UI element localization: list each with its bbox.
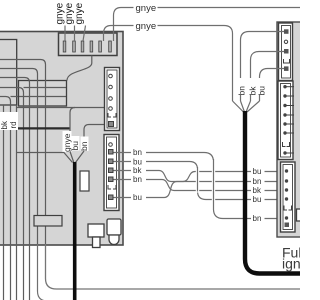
wire bn to K3 pin2 (265, 181, 285, 183)
svg-text:bu: bu (257, 86, 267, 96)
wire bottom corner partial (38, 244, 61, 300)
wire left edge h3 (0, 78, 30, 300)
wire left edge h4 (0, 88, 24, 300)
wire bk from K1 pin3 (251, 52, 285, 102)
gnye wire 2 (104, 21, 233, 101)
wire bn to K3 pin5 (265, 218, 285, 220)
wire bus into relay 1 (24, 87, 68, 89)
gnye wire 1 top (114, 3, 301, 41)
wire bu to K3 pin4 (265, 199, 285, 201)
svg-text:bn: bn (253, 214, 262, 223)
svg-text:bk: bk (0, 120, 9, 129)
bottom component 2 (sensor) (107, 219, 121, 245)
harness wire bu197 (146, 182, 251, 198)
wire stub P2 pin3 bk (114, 170, 132, 172)
component box left edge (0, 40, 17, 106)
Full sequence ignition text (282, 245, 319, 272)
wire bus into relay 2 (11, 96, 68, 98)
harness wire bn152 (146, 153, 251, 219)
wire conn1 pin to cable (bn) (84, 125, 105, 152)
svg-text:gnye: gnye (74, 2, 85, 24)
PCB (main control board) (0, 32, 123, 246)
PCB connector P2 (104, 135, 119, 211)
cable fan lines (64, 151, 85, 163)
svg-text:gnye: gnye (136, 21, 157, 32)
wire stub P2 pin1 bn (114, 152, 132, 154)
wire bottom corner to right (46, 244, 301, 289)
relay outline (19, 81, 67, 107)
svg-text:bu: bu (133, 193, 142, 202)
wire bu from K1 pin4 (260, 69, 285, 102)
wire from component box down (3, 105, 5, 300)
small partial box right edge (297, 209, 305, 221)
middle labels right (253, 167, 262, 223)
svg-text:ignitio: ignitio (282, 256, 300, 272)
top connector J1 (59, 33, 118, 56)
left thick cable (73, 162, 77, 300)
harness wire bk170 (146, 171, 251, 182)
label rd (9, 112, 18, 130)
svg-text:bk: bk (253, 186, 262, 195)
unit connector K3 (281, 162, 296, 232)
svg-text:bn: bn (237, 86, 247, 96)
bottom component 1 (plug) (88, 224, 104, 248)
small white component beside cable (80, 171, 89, 191)
harness crossing verticals redrawn with halo (198, 159, 214, 210)
svg-text:bk: bk (133, 166, 142, 175)
wire stub P2 pin2 bu (114, 161, 132, 163)
svg-text:bn: bn (133, 148, 142, 157)
wire from component box down 2 (16, 105, 18, 300)
wire gnye to cable fan (17, 152, 64, 154)
gnye vertical label 3 (74, 2, 86, 41)
wire bn from K1 pin1 (241, 32, 285, 102)
svg-text:bn: bn (253, 177, 262, 186)
label bk (0, 112, 9, 130)
unit connector K1 (279, 23, 293, 81)
wire conn1 pin to cable (bu) (17, 107, 105, 109)
thick wire y128 (17, 127, 71, 129)
PCB connector P1 (105, 68, 120, 131)
svg-text:bu: bu (253, 195, 262, 204)
wire left edge h2 (0, 69, 38, 245)
wire stub P2 pin4 bn (114, 179, 132, 181)
unit connector K2 (278, 81, 294, 160)
cable fan labels (62, 131, 72, 152)
svg-text:bu: bu (253, 167, 262, 176)
right fan lines (233, 101, 260, 112)
svg-text:bn: bn (79, 141, 89, 151)
wire left edge h5 (0, 97, 11, 300)
harness wire bn179 (146, 180, 251, 191)
fan labels right (237, 78, 248, 96)
gnye vertical label 2 (64, 2, 75, 41)
small rect component (34, 216, 62, 227)
wire stub P2 pin5 bu (114, 197, 132, 199)
middle labels left (133, 148, 142, 202)
svg-text:rd: rd (9, 121, 18, 128)
wire bu to K3 pin1 (265, 171, 285, 173)
gnye vertical label 1 (55, 2, 66, 41)
harness wire bu161 (146, 162, 251, 200)
right thick cable (245, 111, 300, 274)
svg-text:bn: bn (133, 175, 142, 184)
svg-text:gnye: gnye (136, 3, 157, 14)
unit gray zone (277, 22, 303, 237)
wire bk to K3 pin3 (265, 190, 285, 192)
wire left edge h1 (0, 60, 46, 245)
wire pin4 S-curve to cable (67, 56, 92, 81)
